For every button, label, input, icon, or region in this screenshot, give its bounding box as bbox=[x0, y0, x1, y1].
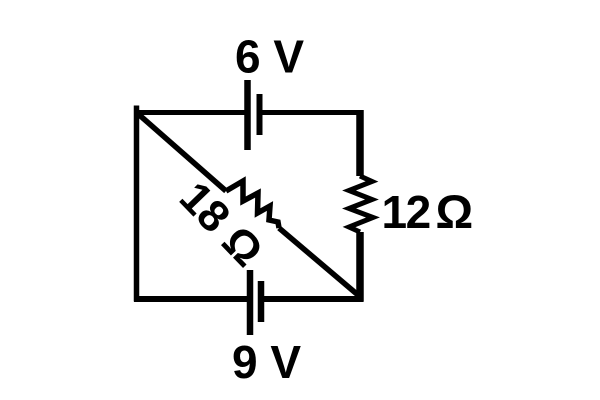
wire bottom-left segment bbox=[134, 296, 247, 302]
wire right-bottom segment bbox=[356, 232, 364, 302]
wire top-right segment bbox=[260, 110, 364, 115]
svg-text:9 V: 9 V bbox=[232, 336, 301, 388]
resistor R3 18-ohm zigzag bbox=[226, 181, 279, 228]
svg-text:Ω: Ω bbox=[436, 185, 474, 238]
wire left side bbox=[134, 106, 140, 302]
svg-text:6 V: 6 V bbox=[235, 31, 304, 83]
battery V2 short plate bbox=[258, 281, 265, 322]
wire bottom-right segment bbox=[262, 296, 364, 302]
wire diagonal lower segment bbox=[279, 228, 358, 295]
battery V2 long plate bbox=[247, 270, 254, 335]
resistor R2 12-ohm zigzag bbox=[349, 176, 373, 232]
svg-text:18 Ω: 18 Ω bbox=[170, 173, 272, 276]
wire right-top segment bbox=[356, 110, 364, 176]
wire diagonal upper segment bbox=[137, 113, 227, 192]
wire top-left segment bbox=[134, 110, 247, 115]
svg-text:12: 12 bbox=[382, 186, 430, 238]
battery V1 short plate bbox=[257, 94, 263, 135]
battery V1 long plate bbox=[244, 80, 251, 150]
